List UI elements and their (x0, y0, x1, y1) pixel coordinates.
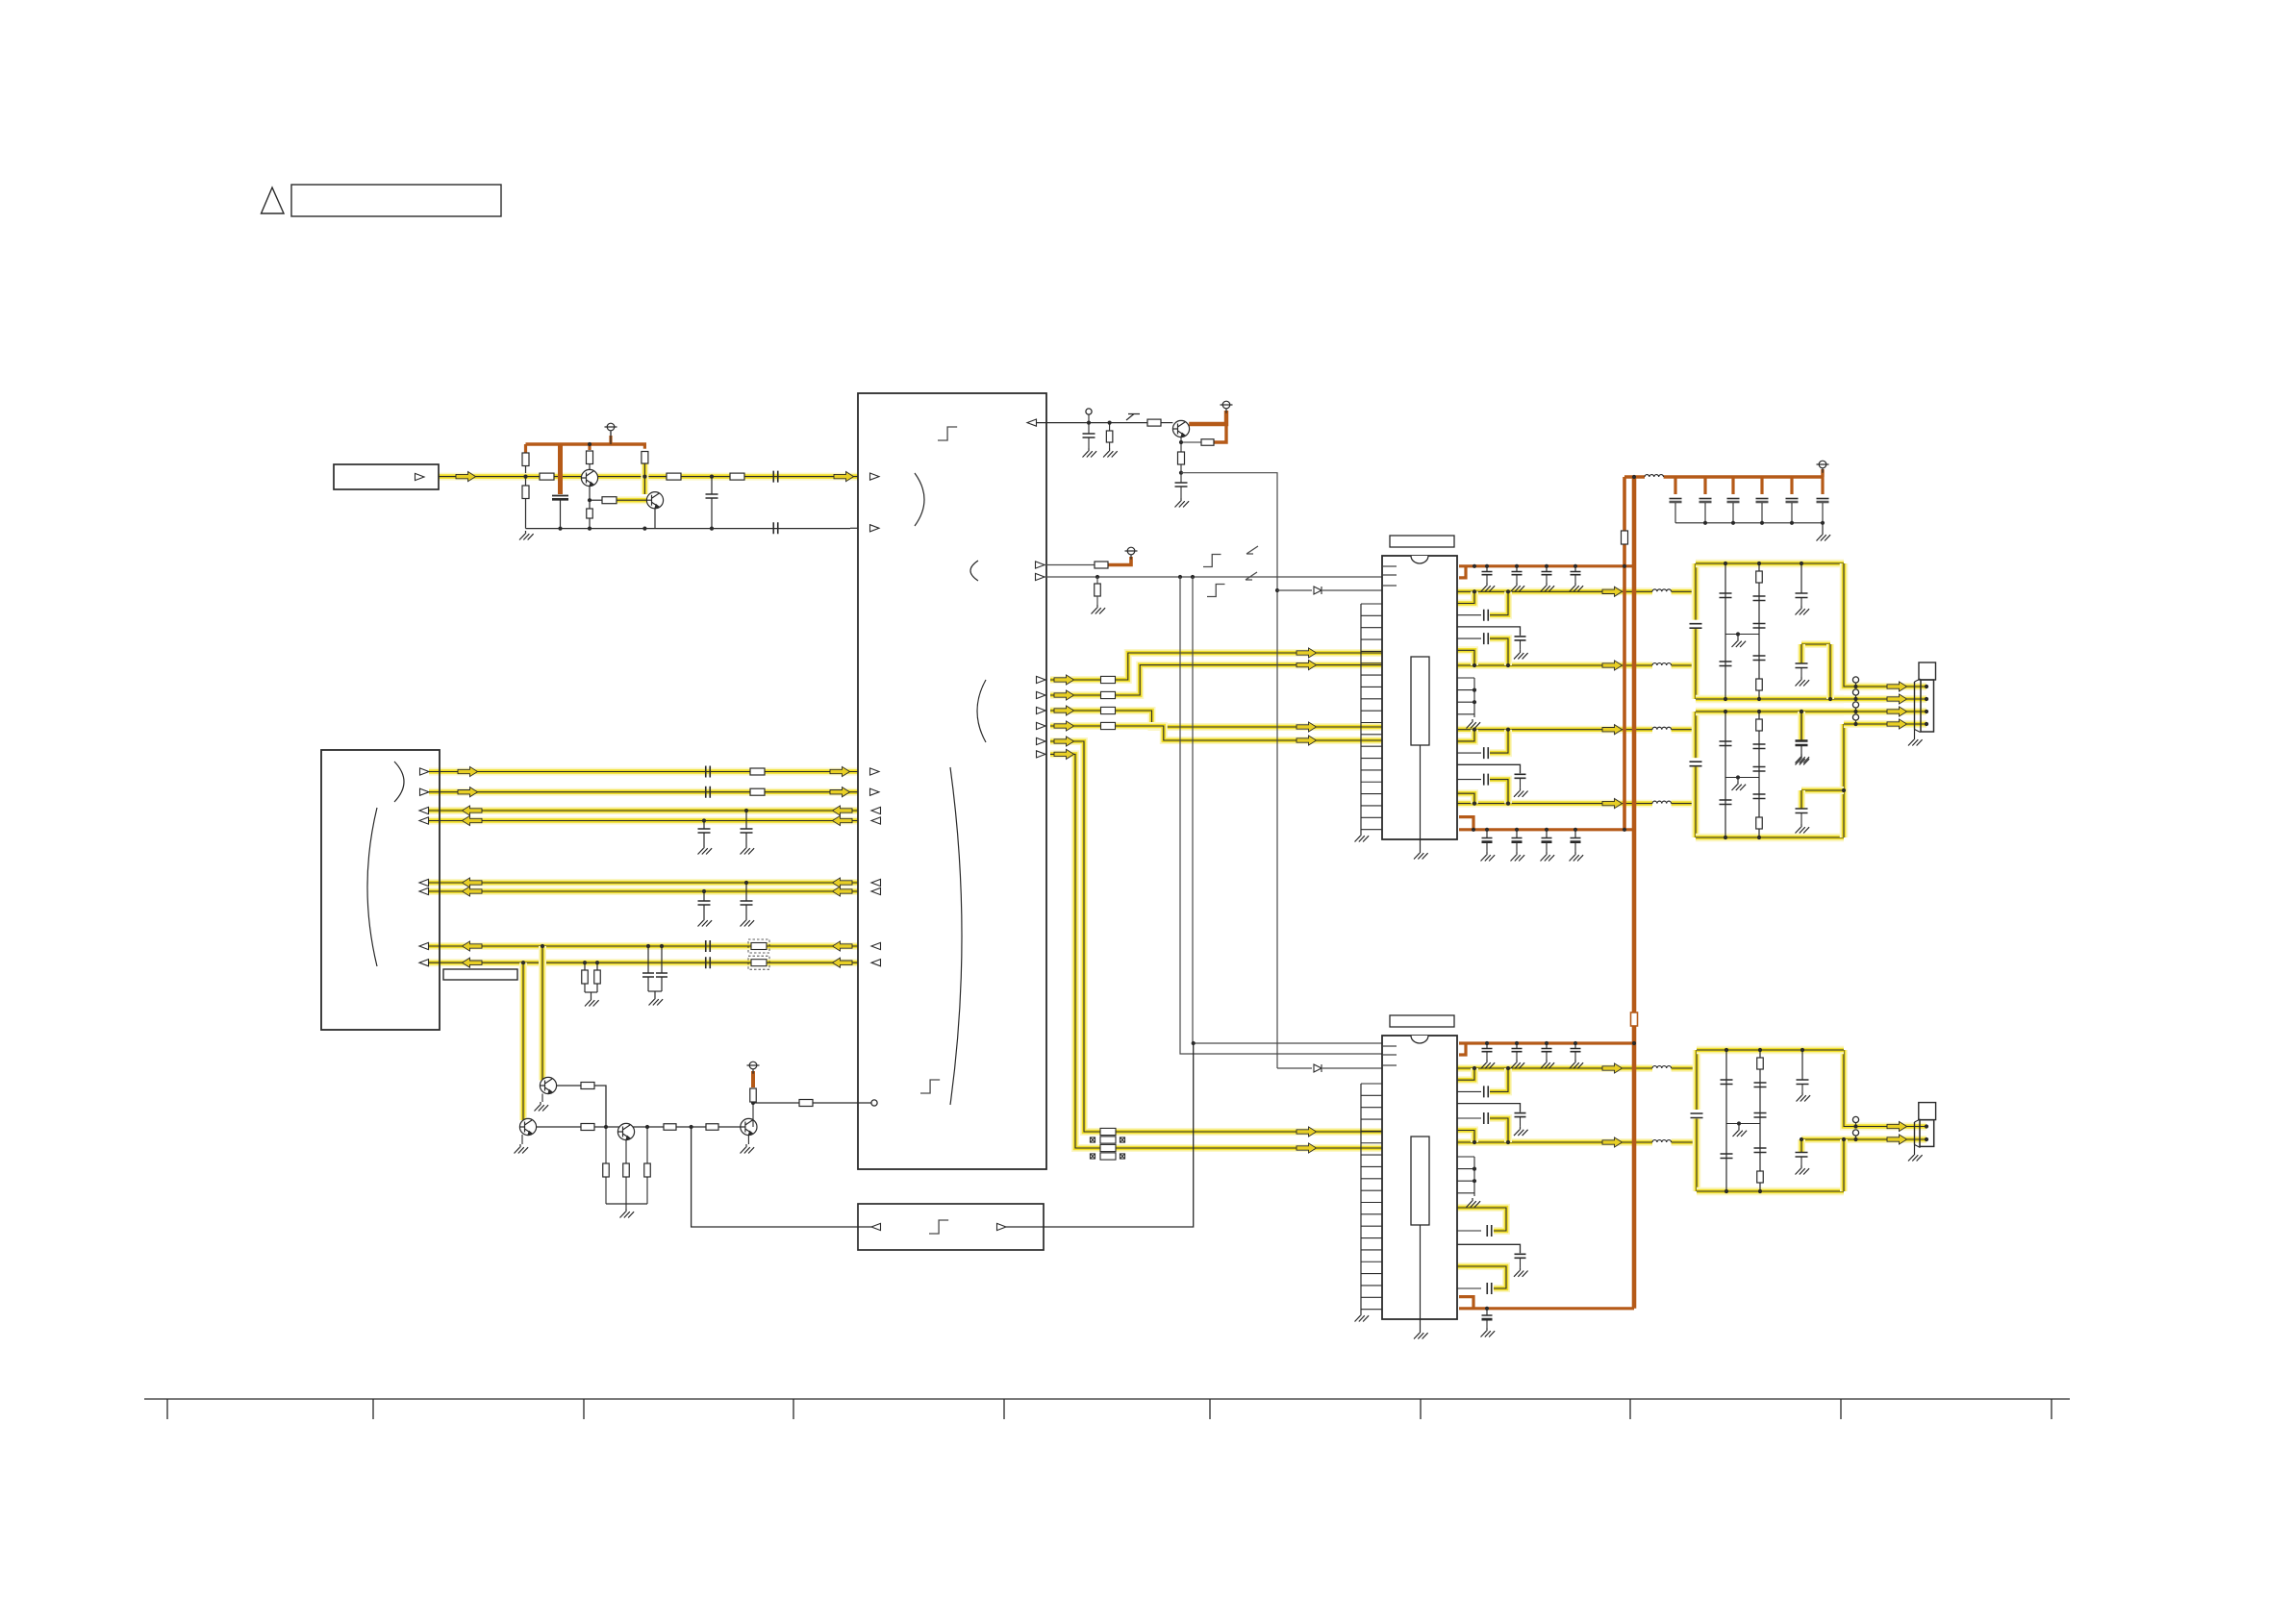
FL3 right edge lower (yellow) (1840, 1139, 1848, 1191)
LC filter FL2 column2 wire (1758, 712, 1760, 837)
ruler tick 1 (166, 1399, 168, 1419)
control rail wire to IC diodes (1181, 473, 1277, 1068)
capacitor C c LC filter FL1 (1753, 596, 1766, 601)
signal arrow row5 at block (833, 878, 853, 887)
signal arrow row2 (458, 787, 478, 797)
ground mute divider (620, 1209, 635, 1218)
U3 left pin 6 (1361, 662, 1382, 664)
ground Q4 (535, 1102, 549, 1112)
transistor Q1 input amp (581, 469, 597, 486)
U3 cluster bus (1473, 678, 1475, 717)
junction node N20 (1473, 700, 1476, 704)
junction node N36 (1800, 710, 1803, 713)
junction node N29 (1828, 697, 1832, 701)
junction node N14 (1703, 521, 1707, 525)
wire W65 (1520, 778, 1522, 787)
LC filter FL1 left edge upper (yellow) (1692, 563, 1700, 620)
U4 internal block (1411, 1137, 1429, 1225)
source box output arrowhead (415, 473, 425, 480)
main audio input wire (yellow) (439, 473, 858, 481)
ground rail junction x=582.5 (558, 527, 562, 531)
U4 nc stub 3 (1383, 1064, 1397, 1066)
U3 left pin 20 (1361, 829, 1382, 831)
U4 left pin 2 (1361, 1094, 1382, 1096)
U1 DAC output arrowhead 4 (1037, 722, 1046, 729)
resistor R14 standby (1095, 562, 1108, 568)
LC filter FL3 top edge (yellow) (1697, 1046, 1844, 1055)
CN2 pin node 3 (1925, 710, 1928, 713)
wire W58 (1486, 1052, 1488, 1060)
wire W64 (1520, 640, 1522, 650)
resistor R a LC filter FL1 (1756, 571, 1763, 583)
terminal circle on U1 left edge (871, 1100, 877, 1106)
signal arrow row8 (463, 958, 483, 967)
U3 left pin 13 (1361, 745, 1382, 747)
wire W57 (1574, 842, 1576, 852)
U3ch1 feedback jumper (yellow) (1490, 591, 1508, 614)
U4 cap stub 1 (1486, 1043, 1488, 1049)
signal arrow 5 (1054, 737, 1074, 746)
U4 rail cap node 1 (1485, 1041, 1489, 1045)
junction node N2 (702, 818, 706, 822)
tall brace grouping I/O rows (950, 767, 962, 1105)
U4 left pin 12 (1361, 1213, 1382, 1215)
junction node N21 (1473, 1167, 1476, 1171)
signal arrow 6 at U4 (1297, 1143, 1317, 1153)
vertical feed wire row8 to Q5 (yellow) (519, 962, 527, 1120)
wire W31 (1322, 589, 1382, 591)
U3 nc pin wire 4 (1457, 713, 1474, 715)
wire W76 (1855, 695, 1857, 699)
wire W23 (1109, 423, 1111, 431)
junction node N42 (1853, 1124, 1857, 1128)
LC filter FL1 column1 wire (1725, 563, 1726, 699)
junction node N19 (1473, 688, 1476, 692)
slash mark 2 (1246, 572, 1257, 580)
resistor commoning wire (585, 991, 597, 993)
ruler tick 6 (1209, 1399, 1211, 1419)
DAC signal arrow 2 at U3 (1297, 661, 1317, 670)
wire W51 (1516, 575, 1518, 583)
U4 label box (1390, 1015, 1454, 1027)
transistor Q5 muting (519, 1118, 536, 1135)
capacitor C U4 top 3 (1542, 1049, 1552, 1052)
U3 output 4 wire (yellow) (1457, 800, 1652, 808)
U3 cap stub 2 (1516, 566, 1518, 572)
junction node N48 (1737, 1121, 1741, 1125)
wire W59 (1516, 1052, 1518, 1060)
U4 nc pin wire 1 (1457, 1156, 1474, 1158)
capacitor C b LC filter FL3 (1721, 1154, 1733, 1159)
signal arrow row1 (458, 766, 478, 776)
wire W5 (591, 992, 592, 997)
junction node N41 (1853, 722, 1857, 726)
speaker arrow 5 (1887, 1121, 1907, 1131)
transistor Q6 muting (617, 1123, 634, 1139)
U4ch2 riser junction (1473, 1140, 1476, 1144)
resistor R7 series input (540, 473, 554, 480)
row3 signal wire (yellow) (429, 807, 858, 814)
CN2 pin node 1 (1925, 685, 1928, 688)
junction row7 / vertical feed (541, 944, 544, 948)
wire W7 (647, 977, 649, 991)
capacitor C b LC filter FL2 (1720, 800, 1732, 805)
audio wire 6 to pack (yellow) (1050, 754, 1100, 1148)
wire W80 (1855, 1123, 1857, 1127)
wire W37 (625, 1140, 627, 1163)
capacitor C loop2 U4 (1487, 1283, 1492, 1294)
junction node N1 (744, 809, 748, 812)
junction node N13 (1191, 575, 1195, 579)
row2 signal wire CN1 to U1 (yellow) (429, 788, 858, 796)
speaker wire 4 (yellow) (1844, 720, 1926, 728)
wire W82 (1914, 1145, 1916, 1153)
ground G1 (741, 845, 755, 855)
U1 output arrowhead 5 (1037, 737, 1046, 744)
U4ch2 feedback junction (1506, 1140, 1510, 1144)
ground G2 (698, 845, 713, 855)
U4 V+ top rail (brown) (1459, 1041, 1634, 1044)
junction control rail / U3 gate line (1275, 588, 1279, 592)
ruler tick 4 (793, 1399, 794, 1419)
junction node N17 (1790, 521, 1794, 525)
FL2 inner ground (1796, 756, 1810, 765)
U4 output 1 arrow (1602, 1063, 1623, 1073)
ruler tick 7 (1420, 1399, 1422, 1419)
ruler tick 5 (1003, 1399, 1005, 1419)
U3 left pin 7 (1361, 674, 1382, 676)
wire W19 (850, 527, 858, 529)
top V+ rail segment (brown) (1624, 475, 1645, 478)
wire W28 (1180, 442, 1182, 452)
U4 left pin 4 (1361, 1118, 1382, 1120)
ground snubber U4ch1 (1514, 1127, 1528, 1137)
capacitor C loop1 U4 (1487, 1225, 1492, 1237)
wire W85 (1800, 1157, 1802, 1165)
U3ch1 riser junction (1473, 589, 1476, 593)
wire W55 (1516, 842, 1518, 852)
U4 output 1 wire (yellow) (1457, 1064, 1652, 1072)
FL1 inner jumper left (yellow) (1798, 644, 1805, 663)
Q2 base wire (yellow) (617, 496, 647, 504)
U4 V+ pin Z (brown) (1459, 1043, 1466, 1055)
wire W48 (813, 1102, 871, 1104)
U1 DAC output arrowhead 1 (1037, 676, 1046, 683)
resistor R22 (706, 1124, 718, 1131)
LC filter FL3 left edge upper (yellow) (1693, 1050, 1701, 1110)
connector CN1 box (321, 750, 440, 1030)
ground node C (1175, 498, 1190, 508)
wire W52 (1546, 575, 1548, 583)
ground Q5 (515, 1144, 529, 1154)
U4 left pin 11 (1361, 1202, 1382, 1204)
vertical feed wire row7 to Q4 (yellow) (539, 946, 546, 1075)
power terminal mute2 (747, 1062, 760, 1074)
capacitor C series LC filter FL3 (1691, 1113, 1703, 1118)
U3 signal ground (1355, 833, 1370, 842)
resistor R21 (664, 1124, 676, 1131)
FL3 right edge to speaker wire 5 (yellow) (1844, 1050, 1926, 1127)
CN2 pin node 2 (1925, 697, 1928, 701)
ground Q7 (741, 1144, 755, 1154)
capacitor C d LC filter FL2 (1753, 767, 1766, 772)
U4 output 2 arrow (1602, 1137, 1623, 1147)
U4 left pin 6 (1361, 1142, 1382, 1144)
capacitor C7 series coupling (773, 471, 778, 483)
sub-block output pin arrowhead (997, 1223, 1007, 1230)
block input arrowhead (870, 473, 880, 480)
CN2 shroud bar (1914, 682, 1916, 730)
bus A junction (1623, 564, 1626, 568)
connector pin arrowhead row6 (419, 887, 429, 894)
wire W24 (1109, 442, 1111, 448)
U3ch3 riser junction (1473, 728, 1476, 732)
standby wire 2 (1045, 576, 1382, 578)
LC filter FL3 c3 ground (1797, 1092, 1811, 1102)
wire W32 (1322, 1067, 1382, 1069)
node E junction (645, 1125, 649, 1129)
capacitor C series LC filter FL1 (1690, 624, 1702, 629)
caution note box (291, 185, 501, 216)
speaker arrow 3 (1887, 707, 1907, 716)
audio input source box (334, 464, 439, 489)
resistor R15 pulldown (1095, 584, 1101, 596)
power terminal input stage (605, 423, 617, 436)
audio wire 6 to U4 (yellow) (1116, 1144, 1382, 1152)
U4 loopback 1 (yellow) (1457, 1208, 1506, 1231)
U3 left pin 12 (1361, 734, 1382, 736)
wire W42 (646, 1177, 648, 1204)
signal arrow row2 at block (830, 787, 850, 797)
signal arrow row4 (463, 815, 483, 825)
capacitor C U3 bottom 1 (polarized) (1482, 838, 1493, 842)
FL2 right edge (yellow) (1840, 724, 1849, 837)
wire W54 (1486, 842, 1488, 852)
capacitor C U3 bottom 4 (polarized) (1571, 838, 1581, 842)
junction node N49 (1800, 1048, 1804, 1052)
resistor R10 mute pulldown (1106, 431, 1113, 442)
terminated pin mark RP2 (1120, 1137, 1124, 1142)
wire W38 (605, 1127, 607, 1163)
DAC signal arrow 4 at U3 (1297, 736, 1317, 745)
Q2 collector link (yellow) (641, 463, 648, 494)
connector pin arrowhead row5 (419, 879, 429, 886)
speaker arrow 4 (1887, 719, 1907, 729)
U4 left pin bus (1360, 1084, 1362, 1312)
wire W84 (1801, 1084, 1803, 1092)
DAC wire 1 (yellow) (1050, 653, 1382, 680)
U3ch3 riser pin wire (yellow) (1457, 730, 1474, 741)
cap stub (brown) 1 (1674, 477, 1676, 494)
transistor Q3 mute switch (1172, 420, 1189, 437)
resistor pack RP2 (1100, 1128, 1116, 1160)
U4 cluster bus (1473, 1157, 1475, 1196)
capacitor C U3 top 4 (1571, 572, 1581, 575)
ground U3 bottom cap 2 (1511, 852, 1525, 862)
ground mute R (1103, 448, 1118, 458)
V+ bus A (brown) (1623, 477, 1626, 830)
U4 left pin 17 (1361, 1273, 1382, 1275)
U4 nc pin wire 4 (1457, 1192, 1474, 1194)
U3 output 2 wire (yellow) (1457, 662, 1652, 669)
capacitor C a LC filter FL3 (1721, 1080, 1733, 1085)
junction node N25 (1757, 562, 1761, 565)
signal arrow row3 at block (833, 806, 853, 815)
wire W27 (1181, 441, 1201, 443)
U3 V- bottom rail (brown) (1459, 828, 1634, 831)
transistor Q7 muting (741, 1118, 757, 1135)
wire W53 (1574, 575, 1576, 583)
ground U4 top cap 2 (1511, 1060, 1525, 1069)
junction node N28 (1800, 562, 1803, 565)
junction node N47 (1758, 1189, 1762, 1193)
U3ch2 riser junction (1473, 663, 1476, 667)
resistor R b LC filter FL1 (1756, 679, 1763, 690)
Q5 collector wire (537, 1126, 582, 1128)
U3 nc stub 1 (1383, 565, 1397, 567)
U1 output arrowhead 6 (1037, 751, 1046, 758)
signal arrow row7 at block (833, 941, 853, 951)
signal arrow row6 at block (833, 887, 853, 896)
U4ch1 feedback pin wire (1457, 1090, 1481, 1092)
wire W45 (718, 1126, 741, 1128)
wire W44 (676, 1126, 706, 1128)
capacitor C bypass row pair1 x=732 (698, 829, 711, 833)
U4 bottom cap node (1485, 1307, 1489, 1311)
resistor R11 mute base (1147, 419, 1161, 426)
capacitor C a LC filter FL2 (1720, 741, 1732, 746)
U4 loopback 2 (yellow) (1457, 1266, 1506, 1288)
ground U4 top cap 1 (1481, 1060, 1496, 1069)
junction node N22 (1473, 1179, 1476, 1183)
U4 left pin 15 (1361, 1249, 1382, 1251)
wire W68 (1737, 635, 1739, 638)
U4 left pin 14 (1361, 1237, 1382, 1239)
signal arrow row3 (463, 806, 483, 815)
U3 left pin 14 (1361, 758, 1382, 760)
U3 nc pin wire 3 (1457, 701, 1474, 703)
bottom border ruler line (144, 1398, 2070, 1400)
CN3 ground (1908, 1152, 1923, 1162)
U3ch4 feedback pin wire (1457, 779, 1481, 781)
wire W9 (661, 977, 663, 991)
junction node N27 (1736, 632, 1740, 636)
wire W21 (1088, 423, 1090, 434)
U3 output 1 arrow (1602, 587, 1623, 596)
LC filter FL2 column1 wire (1725, 712, 1726, 837)
cap lead 6 (1822, 503, 1824, 523)
control rail wire C to U4 (1193, 577, 1382, 1043)
inductor L7 output 2 (1652, 1140, 1672, 1142)
junction node N35 (1800, 710, 1803, 713)
delay sub-block U2 (858, 1204, 1044, 1250)
capacitor C1 series row1 (706, 766, 711, 778)
U4 left pin 16 (1361, 1261, 1382, 1262)
cap to gnd wire x=732 (703, 833, 705, 845)
block pin arrowhead row5 (871, 879, 881, 886)
U3 left pin 10 (1361, 710, 1382, 712)
brace grouping DAC bus (977, 680, 986, 742)
capacitor C series row7 (706, 940, 711, 952)
U3 bottom cap stub 1 (1486, 830, 1488, 837)
node F junction (690, 1125, 693, 1129)
FL3 inner ground (1796, 1165, 1810, 1175)
wire W75 (1855, 683, 1857, 687)
capacitor C g FL2 (1796, 740, 1808, 745)
U4 left pin 13 (1361, 1225, 1382, 1227)
Q7 collector wire (752, 1103, 754, 1127)
rail junction (1473, 564, 1476, 568)
Q4 base link (yellow) (539, 1075, 546, 1081)
resistor pack RP1 (1101, 676, 1116, 729)
resistor R a LC filter FL3 (1757, 1058, 1764, 1069)
power amp IC U4 body (1382, 1036, 1457, 1319)
capacitor C a LC filter FL1 (1720, 593, 1732, 598)
capacitor C c LC filter FL2 (1753, 744, 1766, 749)
resistor R a LC filter FL2 (1756, 719, 1763, 731)
connector pin arrowhead row7 (419, 942, 429, 949)
wire W10 (654, 991, 656, 996)
LC filter FL3 ground tie wire (1726, 1123, 1760, 1125)
sub-block input pin arrowhead (871, 1223, 881, 1230)
Q2 collector junction (642, 475, 646, 479)
U3 pin-1 notch (1411, 556, 1428, 563)
capacitor C feedback U3ch3 (1484, 747, 1489, 759)
slash mark 1 (1246, 546, 1258, 554)
wire W61 (1574, 1052, 1576, 1060)
LC filter FL1 column2 wire (1758, 563, 1760, 699)
U4 left pin 20 (1361, 1309, 1382, 1311)
resistor R5 collector load (587, 451, 593, 464)
DAC signal arrow 4 (1054, 721, 1074, 731)
power amp IC U3 body (1382, 556, 1457, 839)
V+ supply rail (brown) input stage (526, 442, 647, 446)
capacitor C d LC filter FL3 (1754, 1113, 1767, 1118)
power stub (610, 432, 612, 444)
junction node N6 (595, 961, 599, 964)
resistor R20 (644, 1163, 651, 1177)
Q3 emitter node (1179, 440, 1183, 444)
connector grouping brace (rows 1-2) (394, 762, 404, 802)
U3 V- pin Z (brown) (1459, 817, 1473, 830)
cap to gnd wire x=776 (745, 833, 747, 845)
U3 V+ pin Z (brown) (1459, 566, 1466, 578)
junction node N30 (1724, 710, 1727, 713)
signal step symbol bottom of U1 (920, 1080, 940, 1093)
capacitor C supply 2 (polarized) (1699, 498, 1712, 500)
junction node N24 (1724, 697, 1727, 701)
capacitor C U4 bottom (polarized) (1482, 1315, 1493, 1319)
capacitor C f LC filter FL2 (1796, 741, 1808, 746)
CN3 shroud hooks (1915, 1119, 1921, 1148)
node C junction (1179, 471, 1183, 475)
speaker wire 6 (yellow) (1801, 1136, 1926, 1143)
U3ch3 snubber pin wire (1457, 764, 1521, 773)
speaker arrow 2 (1887, 694, 1907, 704)
CN3 pin node 1 (1925, 1124, 1928, 1128)
LC filter FL3 column2 wire (1759, 1050, 1761, 1191)
wire sub-block output to control rail (1006, 1043, 1194, 1227)
signal arrow 5 at U4 (1297, 1127, 1317, 1137)
U3ch2 feedback jumper (yellow) (1490, 638, 1508, 665)
power terminal mute (1221, 401, 1233, 413)
wire W79 (1914, 730, 1916, 737)
ground snubber U4ch3 (1514, 1267, 1528, 1277)
U1 output arrowhead stby2 (1036, 573, 1045, 580)
junction node N23 (1724, 562, 1727, 565)
wire W14 (560, 500, 562, 529)
speaker arrow 6 (1887, 1135, 1907, 1144)
